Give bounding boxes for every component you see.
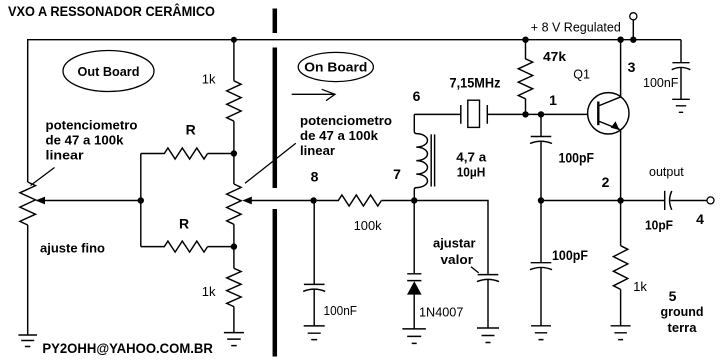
node dot base-C4 [538,111,544,117]
svg-text:1N4007: 1N4007 [419,305,463,320]
crystal X1 plates [461,105,488,124]
board divider bar bottom [273,209,278,357]
transistor Q1 circle [588,93,629,134]
node dot 7 [411,197,417,203]
svg-text:7,15MHz: 7,15MHz [450,75,501,90]
wire 1k to ground [233,307,235,333]
svg-text:4,7 a: 4,7 a [456,149,487,164]
svg-text:PY2OHH@YAHOO.COM.BR: PY2OHH@YAHOO.COM.BR [42,341,213,356]
transistor Q1 base bar [597,102,599,126]
node dot R2 junction [231,243,237,249]
callout P2 [245,143,296,183]
capacitor C6 10pF [664,191,666,210]
svg-text:7: 7 [393,166,401,182]
wire rail to C3 [680,40,682,63]
svg-text:output: output [649,165,684,179]
diode D1 triangle [407,281,422,294]
potentiometer P2 [227,184,241,224]
inductor L1 [414,114,427,200]
svg-text:47k: 47k [543,49,567,64]
node dot rail-1k [231,37,237,43]
wire node2 to R7 [620,201,622,246]
wire C1 to ground [313,290,315,326]
crystal X1 body [468,100,480,127]
resistor R3 1k top [227,81,241,121]
svg-text:potenciometro: potenciometro [300,114,392,128]
svg-text:valor: valor [441,253,474,267]
wire T3 [632,20,634,40]
svg-text:+ 8 V Regulated: + 8 V Regulated [531,21,621,35]
wire R7 to ground [620,289,622,325]
svg-text:1k: 1k [202,284,216,299]
svg-text:2: 2 [602,174,610,190]
wire node7 to D1 [413,201,415,274]
wire pot to 1k bottom [233,224,235,268]
svg-text:potenciometro: potenciometro [46,119,138,133]
wire C2 to ground [487,280,489,328]
svg-text:ajustar: ajustar [433,237,476,251]
wire node8 down [313,201,315,285]
svg-text:Out Board: Out Board [78,64,140,79]
resistor R5 100k [317,195,414,206]
callout P1 [31,168,55,186]
wire node7 to C2 [414,201,488,275]
ground D1 [402,329,426,344]
wire base to C4 [540,114,542,136]
wire crystal right [487,113,587,115]
wire node2 to C5 [540,201,542,263]
svg-text:3: 3 [628,59,636,75]
inductor L1 core [431,134,434,186]
node dot rail-T3 [630,37,636,43]
node dot rail-collector [617,37,623,43]
node dot rail-47k [522,37,528,43]
resistor R7 1k [613,246,627,290]
svg-text:ground: ground [661,304,704,319]
wire 1k to pot [233,121,235,184]
ground P1 [18,335,37,347]
svg-text:100k: 100k [354,219,383,233]
wire collector up [620,40,622,97]
svg-text:6: 6 [413,88,421,104]
svg-text:1k: 1k [202,71,216,86]
capacitor C2 ajustar [478,274,499,276]
svg-text:100pF: 100pF [559,151,595,166]
wire crystal left [414,113,461,115]
svg-text:de 47 a 100k: de 47 a 100k [46,134,124,148]
svg-text:100nF: 100nF [643,76,679,90]
ground R4 [224,333,244,346]
svg-text:linear: linear [300,144,335,158]
svg-text:linear: linear [46,149,84,163]
capacitor C5 100pF [531,262,552,264]
svg-text:4: 4 [696,211,704,227]
ground C1 [304,326,325,340]
ground C5 [531,326,551,340]
wire top rail [28,40,681,182]
wire 1k top lead [233,40,235,81]
wire D1 to ground [413,295,415,329]
On Board label [298,52,373,81]
board divider bar top [273,9,278,34]
board divider bar middle [273,48,278,189]
potentiometer P1 [20,182,36,225]
ground C2 [477,328,499,343]
P2 wiper arrow [251,200,313,202]
resistor R4 1k bottom [227,268,241,306]
resistor R6 47k [518,40,532,115]
ground R7 [611,326,631,340]
wire node2 rail [541,200,665,202]
node dot 8 [310,197,316,203]
svg-text:R: R [186,121,196,137]
arrow on-board [292,89,335,100]
terminal T3 [630,13,637,20]
capacitor C3 100nF [672,62,689,64]
svg-text:ajuste fino: ajuste fino [40,242,105,256]
node dot 47k-base [522,111,528,117]
wire R left vertical [140,154,142,247]
svg-text:1k: 1k [633,279,647,294]
wire P1 bottom [27,225,29,335]
callout C2 [471,267,479,273]
diode D1 varicap bars [407,274,421,281]
svg-text:5: 5 [669,288,677,304]
wire C3 to ground [680,68,682,100]
svg-text:10pF: 10pF [645,219,673,233]
svg-text:On Board: On Board [304,60,367,75]
node dot 2b [617,197,623,203]
svg-text:VXO A RESSONADOR CERÂMICO: VXO A RESSONADOR CERÂMICO [8,4,215,19]
svg-text:terra: terra [668,320,698,335]
svg-text:1: 1 [549,92,557,108]
wire C4 to node2 [540,142,542,201]
svg-text:8: 8 [311,169,319,185]
svg-text:100nF: 100nF [324,303,358,318]
transistor Q1 collector [598,97,620,106]
svg-text:R: R [179,215,189,231]
svg-text:Q1: Q1 [573,67,590,81]
wire C5 to ground [540,268,542,326]
wire C6 to T4 [671,200,708,202]
wire emitter down [620,130,622,201]
capacitor C1 100nF [304,283,325,285]
ground C3 [672,99,690,112]
resistor R2 bottom [141,241,234,252]
transistor Q1 emitter [598,121,620,130]
svg-text:de 47 a 100k: de 47 a 100k [300,129,378,143]
svg-text:10µH: 10µH [457,164,486,179]
svg-text:100pF: 100pF [552,248,588,263]
node dot wiper-R [138,197,144,203]
P1 wiper arrow [44,200,141,202]
node dot R1 junction [231,150,237,156]
resistor R1 top [141,148,234,159]
Out Board label [63,51,154,92]
node dot 2a [538,197,544,203]
capacitor C4 100pF [531,136,552,138]
terminal T4 [707,197,714,204]
